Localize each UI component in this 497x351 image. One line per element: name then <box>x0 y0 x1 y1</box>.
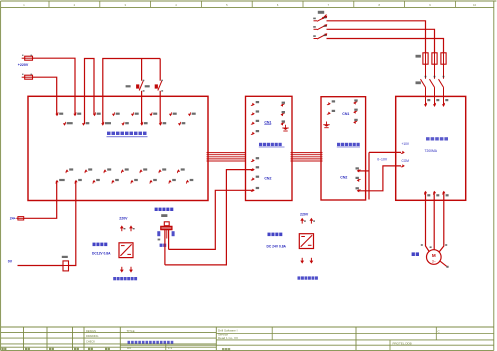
U1 top pin row 1 <box>57 112 58 115</box>
wire KM to inverter <box>434 88 436 107</box>
svg-text:DESIGN: DESIGN <box>86 329 96 333</box>
inverter VFD block <box>396 96 466 200</box>
svg-text:CN1: CN1 <box>342 112 349 116</box>
board A ground <box>285 125 287 128</box>
interface board B block <box>321 97 366 200</box>
board A left top pins <box>251 104 254 105</box>
fuse FU4 element 3 <box>441 53 446 64</box>
svg-text:24+: 24+ <box>10 216 16 220</box>
breaker QF label <box>318 11 324 14</box>
fuse FU4 element 1 <box>423 53 428 64</box>
motor M1 <box>427 250 442 265</box>
pressure sensor BP <box>155 208 158 211</box>
wire jumper loop <box>85 59 95 125</box>
capacitor C1 <box>63 261 69 271</box>
board B right bottom pins <box>358 170 361 171</box>
board A left bottom pins <box>251 161 254 162</box>
board B center label <box>337 143 340 146</box>
contact K2 <box>155 84 158 88</box>
sensor leg wires <box>164 230 166 265</box>
wire QF to FU <box>327 21 426 53</box>
wire KM to inverter <box>443 88 445 107</box>
PS1 labels <box>93 243 96 247</box>
svg-text:+10V: +10V <box>402 142 410 146</box>
data bus board A to board B <box>291 152 323 154</box>
contactor KM pole 2 <box>430 79 435 87</box>
svg-text:Dead 1 Co. XX: Dead 1 Co. XX <box>218 336 238 340</box>
wire FU1 to U1 <box>33 58 76 114</box>
motor label <box>412 252 415 256</box>
PS1 output pins <box>121 267 123 270</box>
svg-text:+220V: +220V <box>18 63 29 67</box>
breaker QF pole 3 <box>314 38 318 40</box>
U1 top pin row 2 <box>65 122 66 125</box>
board A center label <box>259 143 262 146</box>
wire FU to KM <box>434 64 436 79</box>
board B right top pins <box>354 102 357 103</box>
svg-text:T200MA: T200MA <box>425 149 438 153</box>
svg-text:220V: 220V <box>119 217 128 221</box>
svg-text:CN2: CN2 <box>264 176 271 180</box>
wire K1 to U1 <box>141 91 143 124</box>
breaker QF pole 2 <box>314 28 318 30</box>
contactor KM label <box>416 81 421 84</box>
svg-text:COM: COM <box>402 159 410 163</box>
svg-text:DC 24V 0.8A: DC 24V 0.8A <box>267 244 287 248</box>
PS1 note <box>113 277 116 280</box>
contact K1 <box>136 84 139 88</box>
board B left pins <box>327 104 330 105</box>
board B power symbol <box>326 122 328 125</box>
ruler zone ticks <box>48 1 50 7</box>
inverter center label <box>426 137 430 140</box>
svg-text:3~: 3~ <box>432 259 436 263</box>
wire <box>22 76 25 78</box>
wire C1 to U1 <box>69 181 76 265</box>
svg-text:0~10V: 0~10V <box>377 158 388 162</box>
fuse FU3 <box>16 217 18 219</box>
svg-text:DC12V 0.8A: DC12V 0.8A <box>92 251 111 255</box>
power supply PS2 box <box>299 234 313 249</box>
sheet title (blue) <box>128 341 131 344</box>
wire FU to KM <box>443 64 445 79</box>
fuse FU4 element 2 <box>432 53 437 64</box>
svg-text:CHECK: CHECK <box>86 340 95 344</box>
wire 0V <box>18 265 64 267</box>
PS2 output pins <box>301 258 303 261</box>
U1 bottom pin row 1 <box>66 170 67 173</box>
svg-text:CN2: CN2 <box>340 176 347 180</box>
wire QF to FU <box>327 29 435 53</box>
board A right pins <box>281 104 284 105</box>
wire FU2 to U1 <box>33 77 57 114</box>
motor shaft tick <box>440 261 446 266</box>
PS2 input pins <box>301 220 303 223</box>
svg-text:PROTEL.DDB: PROTEL.DDB <box>393 342 412 346</box>
wire analog out 1 <box>358 170 370 172</box>
inverter top pin arrows <box>426 103 427 106</box>
svg-text:TITLE: TITLE <box>127 329 135 333</box>
contactor KM pole 3 <box>439 79 444 87</box>
PS1 input pins <box>121 228 123 231</box>
svg-text:220V: 220V <box>300 213 309 217</box>
wires inverter to motor <box>426 192 430 252</box>
data bus U1 to board A <box>207 152 246 154</box>
wire analog out 2 <box>358 166 402 191</box>
sheet border frame <box>1 0 497 2</box>
svg-text:A4: A4 <box>127 346 131 350</box>
PS2 note <box>298 276 301 279</box>
wire to contact K1 <box>141 59 143 81</box>
wire sensor to CN board pin A <box>165 170 254 265</box>
wire QF to FU <box>327 39 444 53</box>
PS2 labels <box>268 233 271 237</box>
svg-text:DRAWING: DRAWING <box>86 334 98 338</box>
wire <box>22 57 25 59</box>
svg-text:1:1: 1:1 <box>168 346 173 350</box>
wire K2 to U1 <box>159 59 161 81</box>
svg-text:CN1: CN1 <box>264 120 271 124</box>
interface board A block <box>246 96 293 200</box>
power supply PS1 box <box>119 243 133 258</box>
wire FU3 to U1 <box>24 181 57 218</box>
contactor KM pole 1 <box>421 79 426 87</box>
wire sensor to CN board pin B <box>169 190 254 249</box>
fuse FU4 label <box>416 55 421 58</box>
U1 bottom pin row 2 <box>56 181 57 184</box>
svg-text:M: M <box>432 253 436 258</box>
title block grid <box>1 326 494 328</box>
wire FU to KM <box>425 64 427 79</box>
inverter bottom pin arrows <box>424 192 425 195</box>
wire KM to inverter <box>425 88 427 107</box>
main controller block U1 <box>28 96 208 200</box>
U1 center label <box>107 132 111 135</box>
wire contact loop top <box>103 59 160 125</box>
svg-text:0V: 0V <box>8 259 13 263</box>
breaker QF pole 1 <box>314 20 318 22</box>
